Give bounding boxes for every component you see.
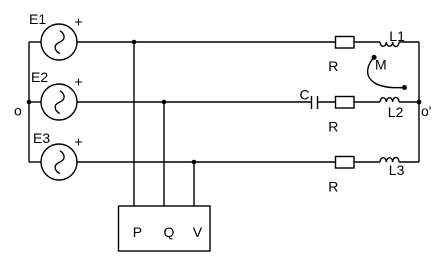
svg-text:P: P bbox=[133, 224, 142, 240]
svg-text:R: R bbox=[328, 118, 338, 134]
svg-text:C: C bbox=[300, 87, 310, 103]
svg-text:E3: E3 bbox=[33, 130, 50, 146]
svg-text:+: + bbox=[74, 134, 82, 150]
svg-text:R: R bbox=[328, 178, 338, 194]
svg-text:E1: E1 bbox=[29, 11, 46, 27]
svg-text:R: R bbox=[328, 58, 338, 74]
svg-text:M: M bbox=[375, 56, 387, 72]
svg-text:+: + bbox=[74, 74, 82, 90]
svg-text:L1: L1 bbox=[389, 28, 405, 44]
svg-text:L3: L3 bbox=[389, 162, 405, 178]
svg-text:o': o' bbox=[421, 103, 431, 119]
svg-text:L2: L2 bbox=[388, 104, 404, 120]
svg-text:Q: Q bbox=[164, 224, 175, 240]
svg-text:E2: E2 bbox=[31, 69, 48, 85]
svg-text:V: V bbox=[193, 224, 203, 240]
svg-text:+: + bbox=[74, 14, 82, 30]
svg-text:o: o bbox=[14, 103, 22, 119]
